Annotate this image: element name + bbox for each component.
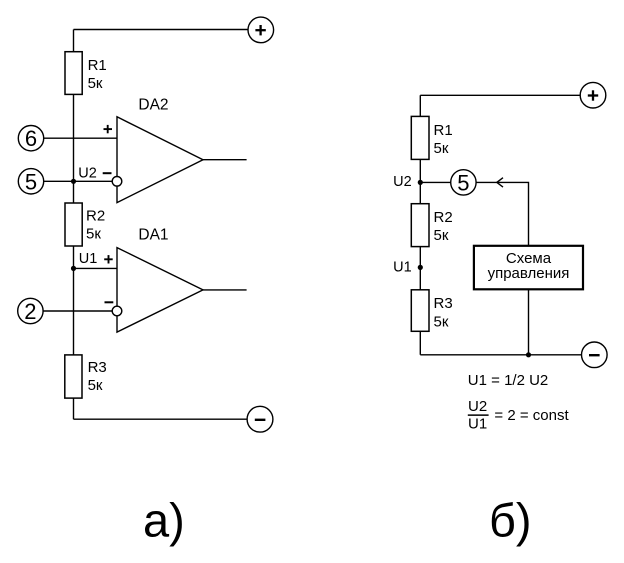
svg-text:U2: U2 xyxy=(468,398,487,415)
node U1 junction dot (right) xyxy=(418,265,423,270)
plus sign DA1 input xyxy=(104,255,113,263)
svg-text:R1: R1 xyxy=(434,122,453,139)
minus sign DA1 input xyxy=(105,301,114,303)
node U2 junction dot (left) xyxy=(71,179,76,184)
svg-text:U2: U2 xyxy=(78,166,97,182)
wire: node U1 to DA1 noninverting xyxy=(74,267,118,269)
resistor R3 (right) xyxy=(411,290,429,332)
arrowhead chevron pointing left xyxy=(497,178,503,187)
terminal +: right circuit positive supply xyxy=(580,82,606,108)
terminal 2 xyxy=(18,298,43,323)
terminal -: right circuit negative supply xyxy=(582,342,608,368)
svg-text:U1: U1 xyxy=(393,260,412,276)
svg-text:5: 5 xyxy=(25,169,37,194)
label control box text xyxy=(488,250,570,282)
svg-text:5к: 5к xyxy=(434,313,449,330)
terminal 6 xyxy=(18,126,43,151)
svg-text:R2: R2 xyxy=(86,208,105,225)
svg-text:R3: R3 xyxy=(434,295,453,312)
wire: DA1 output xyxy=(203,289,247,291)
wire: right top rail xyxy=(420,94,580,96)
svg-text:U1: U1 xyxy=(79,251,98,267)
label R1 5k (right) xyxy=(434,122,453,157)
svg-text:U1: U1 xyxy=(468,416,487,433)
resistor R3 (left) xyxy=(65,355,82,398)
wire: left vertical bus xyxy=(73,30,75,420)
op-amp DA2 triangle xyxy=(117,117,203,203)
wire: input 2 to DA1 inverting bubble xyxy=(44,310,113,312)
node U2 junction dot (right) xyxy=(418,180,423,185)
svg-text:U1 = 1/2 U2: U1 = 1/2 U2 xyxy=(468,372,548,389)
svg-text:а): а) xyxy=(143,493,185,546)
svg-text:2: 2 xyxy=(24,299,36,324)
svg-text:5к: 5к xyxy=(86,226,101,243)
op-amp DA1 triangle xyxy=(117,248,203,333)
svg-text:R3: R3 xyxy=(88,359,107,376)
terminal +: left circuit positive supply xyxy=(248,17,274,43)
svg-text:б): б) xyxy=(489,493,532,546)
wire: control box bottom to negative rail xyxy=(528,289,530,355)
svg-text:5к: 5к xyxy=(434,140,449,157)
DA1 inverting input bubble xyxy=(112,306,122,316)
label R1 5k (left) xyxy=(88,57,107,92)
svg-text:= 2 = const: = 2 = const xyxy=(494,407,569,424)
svg-text:U2: U2 xyxy=(393,174,412,190)
wire: terminal 5 to control box, with corner xyxy=(476,182,528,245)
junction dot at control box wire and bottom rail xyxy=(526,352,531,357)
resistor R2 (right) xyxy=(411,204,429,247)
svg-text:5к: 5к xyxy=(434,227,449,244)
wire: left top rail xyxy=(74,29,249,31)
svg-text:5: 5 xyxy=(457,171,469,196)
terminal -: left circuit negative supply xyxy=(247,406,273,432)
resistor R1 (right) xyxy=(411,116,429,159)
label R2 5k (left) xyxy=(86,208,105,243)
wire: DA2 output xyxy=(203,159,247,161)
svg-text:управления: управления xyxy=(488,265,570,282)
label R3 5k (left) xyxy=(88,359,107,394)
formula fraction U2 over U1 = 2 = const xyxy=(468,398,569,433)
wire: node U2 to terminal 5 xyxy=(420,181,451,183)
svg-text:R1: R1 xyxy=(88,57,107,74)
minus sign DA2 input xyxy=(103,172,112,174)
wire: right vertical bus xyxy=(419,95,421,355)
wire: left bottom rail xyxy=(74,418,248,420)
svg-text:DA2: DA2 xyxy=(138,97,168,114)
label R2 5k (right) xyxy=(434,209,453,244)
terminal 5 (right) xyxy=(451,170,476,195)
wire: right bottom rail xyxy=(420,354,581,356)
svg-text:DA1: DA1 xyxy=(138,227,168,244)
label R3 5k (right) xyxy=(434,295,453,330)
DA2 inverting input bubble xyxy=(112,177,122,187)
resistor R1 (left) xyxy=(65,52,82,95)
fraction bar U2/U1 xyxy=(468,414,489,416)
wire: input 6 to DA2 noninverting xyxy=(44,137,117,139)
svg-text:R2: R2 xyxy=(434,209,453,226)
resistor R2 (left) xyxy=(65,203,82,246)
wire: input 5 to DA2 inverting bubble xyxy=(44,180,112,182)
svg-text:5к: 5к xyxy=(88,377,103,394)
node U1 junction dot (left) xyxy=(71,266,76,271)
plus sign DA2 input xyxy=(104,125,113,133)
svg-text:6: 6 xyxy=(25,126,37,151)
terminal 5 xyxy=(18,169,43,194)
control box: Схема управления xyxy=(474,246,583,289)
svg-text:5к: 5к xyxy=(88,75,103,92)
